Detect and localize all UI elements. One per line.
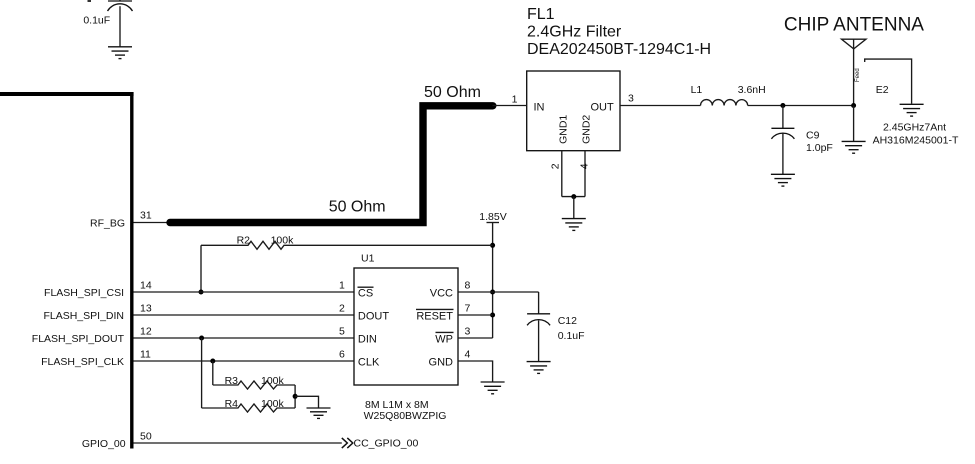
wire antenna feed to ground (853, 106, 855, 142)
wire FL1 pin 4 stub (578, 151, 590, 197)
svg-text:GND1: GND1 (558, 115, 570, 144)
svg-text:DOUT: DOUT (358, 310, 389, 322)
pin 12 FLASH_SPI_DOUT (32, 326, 354, 346)
cut-off label fragment top-left (88, 0, 92, 2)
resistor R4 100k (202, 338, 296, 412)
svg-text:4: 4 (578, 163, 590, 169)
svg-text:FLASH_SPI_DIN: FLASH_SPI_DIN (43, 310, 124, 322)
pin 31 RF_BG (90, 210, 169, 230)
resistor R2 100k (201, 235, 493, 250)
label U1 part (364, 399, 447, 422)
wire FL1 ground connector (562, 196, 585, 198)
svg-text:GPIO_00: GPIO_00 (82, 438, 126, 450)
svg-text:GND2: GND2 (581, 115, 593, 144)
pin 13 FLASH_SPI_DIN (43, 303, 354, 323)
ground (E2) (900, 104, 924, 116)
wire R3/R4 join (294, 385, 296, 408)
svg-text:0.1uF: 0.1uF (558, 330, 585, 342)
svg-text:R2: R2 (237, 235, 251, 247)
svg-text:50: 50 (140, 431, 152, 443)
wire to ground (R3/R4) (295, 396, 318, 408)
svg-text:6: 6 (339, 349, 345, 361)
svg-text:CHIP ANTENNA: CHIP ANTENNA (784, 14, 924, 35)
svg-text:0.1uF: 0.1uF (83, 14, 110, 26)
wire U1 pin 8 VCC (458, 291, 539, 293)
junction (FL1 gnd) (571, 194, 576, 199)
junction (R2/CSI) (199, 290, 204, 295)
svg-text:100k: 100k (261, 375, 285, 387)
wire antenna pin E2 (865, 59, 912, 104)
ground (U1 GND) (481, 382, 505, 394)
junction (R3/R4) (293, 394, 298, 399)
wire FL1 pin 1 (493, 94, 527, 106)
junction (C9 tap) (780, 103, 785, 108)
svg-text:DEA202450BT-1294C1-H: DEA202450BT-1294C1-H (527, 41, 711, 58)
svg-text:2: 2 (549, 163, 561, 169)
wire 50 Ohm thick RF trace (170, 106, 493, 223)
resistor R3 100k (213, 361, 295, 389)
svg-text:5: 5 (339, 326, 345, 338)
svg-text:GND: GND (429, 356, 454, 368)
IC block edge (partial, left) (0, 92, 134, 449)
flash chip U1 (339, 253, 471, 386)
capacitor C-top 0.1uF (83, 0, 132, 47)
svg-text:14: 14 (140, 280, 152, 292)
off-page connector CC_GPIO_00 (342, 438, 419, 450)
svg-text:Feed: Feed (855, 68, 861, 82)
svg-text:CC_GPIO_00: CC_GPIO_00 (354, 438, 419, 450)
wire U1 pin 7 RESET (458, 314, 493, 316)
junction (RESET/rail) (490, 313, 495, 318)
ground (R3/R4) (307, 408, 331, 418)
svg-text:2.45GHz7Ant: 2.45GHz7Ant (883, 121, 946, 133)
junction (VCC/rail) (490, 290, 495, 295)
svg-text:R3: R3 (225, 375, 239, 387)
power flag 1.85V (479, 211, 506, 338)
svg-text:CS: CS (358, 287, 373, 299)
svg-text:4: 4 (465, 349, 471, 361)
svg-text:FLASH_SPI_CSI: FLASH_SPI_CSI (44, 287, 124, 299)
wire U1 pin 3 WP (458, 337, 493, 339)
ground (FL1) (562, 219, 586, 231)
svg-text:L1: L1 (691, 84, 703, 96)
svg-text:3: 3 (628, 93, 634, 105)
wire R2 to CSI (200, 245, 202, 292)
svg-text:RESET: RESET (416, 310, 453, 322)
junction (antenna feed) (851, 103, 856, 108)
ground (C12) (527, 362, 551, 374)
svg-text:100k: 100k (271, 235, 295, 247)
svg-text:1.0pF: 1.0pF (806, 142, 833, 154)
junction (R4 tap on DOUT) (199, 336, 204, 341)
svg-text:R4: R4 (225, 398, 239, 410)
svg-text:DIN: DIN (358, 333, 377, 345)
pin 11 FLASH_SPI_CLK (41, 349, 354, 369)
svg-text:12: 12 (140, 326, 152, 338)
svg-text:OUT: OUT (590, 102, 614, 114)
wire FL1 pin 3 (620, 93, 701, 106)
filter FL1 titles (527, 6, 711, 58)
svg-text:1: 1 (339, 280, 345, 292)
label antenna part (873, 121, 959, 146)
svg-text:FLASH_SPI_CLK: FLASH_SPI_CLK (41, 356, 124, 368)
svg-text:U1: U1 (361, 253, 375, 265)
ground (antenna feed) (842, 141, 866, 153)
svg-text:31: 31 (140, 210, 152, 222)
svg-text:CLK: CLK (358, 356, 380, 368)
svg-text:100k: 100k (261, 398, 285, 410)
wire U1 pin 4 GND (458, 361, 493, 382)
svg-text:RF_BG: RF_BG (90, 218, 125, 230)
antenna E2 symbol (842, 39, 867, 105)
pin 14 FLASH_SPI_CSI (44, 280, 354, 300)
capacitor C9 1.0pF (771, 106, 832, 175)
svg-text:FLASH_SPI_DOUT: FLASH_SPI_DOUT (32, 333, 125, 345)
svg-text:2.4GHz Filter: 2.4GHz Filter (527, 24, 622, 41)
svg-text:VCC: VCC (430, 287, 453, 299)
pin 50 GPIO_00 (82, 431, 342, 451)
junction (R2/rail) (490, 243, 495, 248)
svg-text:AH316M245001-T: AH316M245001-T (873, 135, 959, 147)
svg-text:FL1: FL1 (527, 6, 555, 23)
junction (R3 tap on CLK) (210, 359, 215, 364)
svg-text:11: 11 (140, 349, 151, 361)
svg-text:W25Q80BWZPIG: W25Q80BWZPIG (364, 410, 447, 422)
wire L1 to antenna (748, 105, 854, 107)
svg-text:7: 7 (465, 303, 471, 315)
svg-text:13: 13 (140, 303, 152, 315)
svg-text:1.85V: 1.85V (479, 211, 506, 223)
filter FL1 body (527, 71, 620, 151)
wire to ground (573, 197, 575, 219)
svg-text:8: 8 (465, 280, 471, 292)
svg-text:IN: IN (534, 102, 545, 114)
capacitor C12 0.1uF (527, 292, 584, 362)
inductor L1 3.6nH (691, 84, 766, 106)
svg-text:50 Ohm: 50 Ohm (329, 199, 386, 216)
svg-text:1: 1 (512, 94, 518, 106)
svg-text:E2: E2 (876, 84, 889, 96)
svg-text:C12: C12 (558, 315, 577, 327)
wire FL1 pin 2 stub (549, 151, 562, 197)
ground (C9) (771, 174, 795, 186)
ground (0.1uF cap) (108, 47, 132, 59)
svg-text:50 Ohm: 50 Ohm (424, 84, 481, 101)
svg-text:C9: C9 (806, 130, 820, 142)
svg-text:2: 2 (339, 303, 345, 315)
svg-text:WP: WP (435, 333, 453, 345)
svg-text:3.6nH: 3.6nH (738, 84, 766, 96)
svg-text:3: 3 (465, 326, 471, 338)
